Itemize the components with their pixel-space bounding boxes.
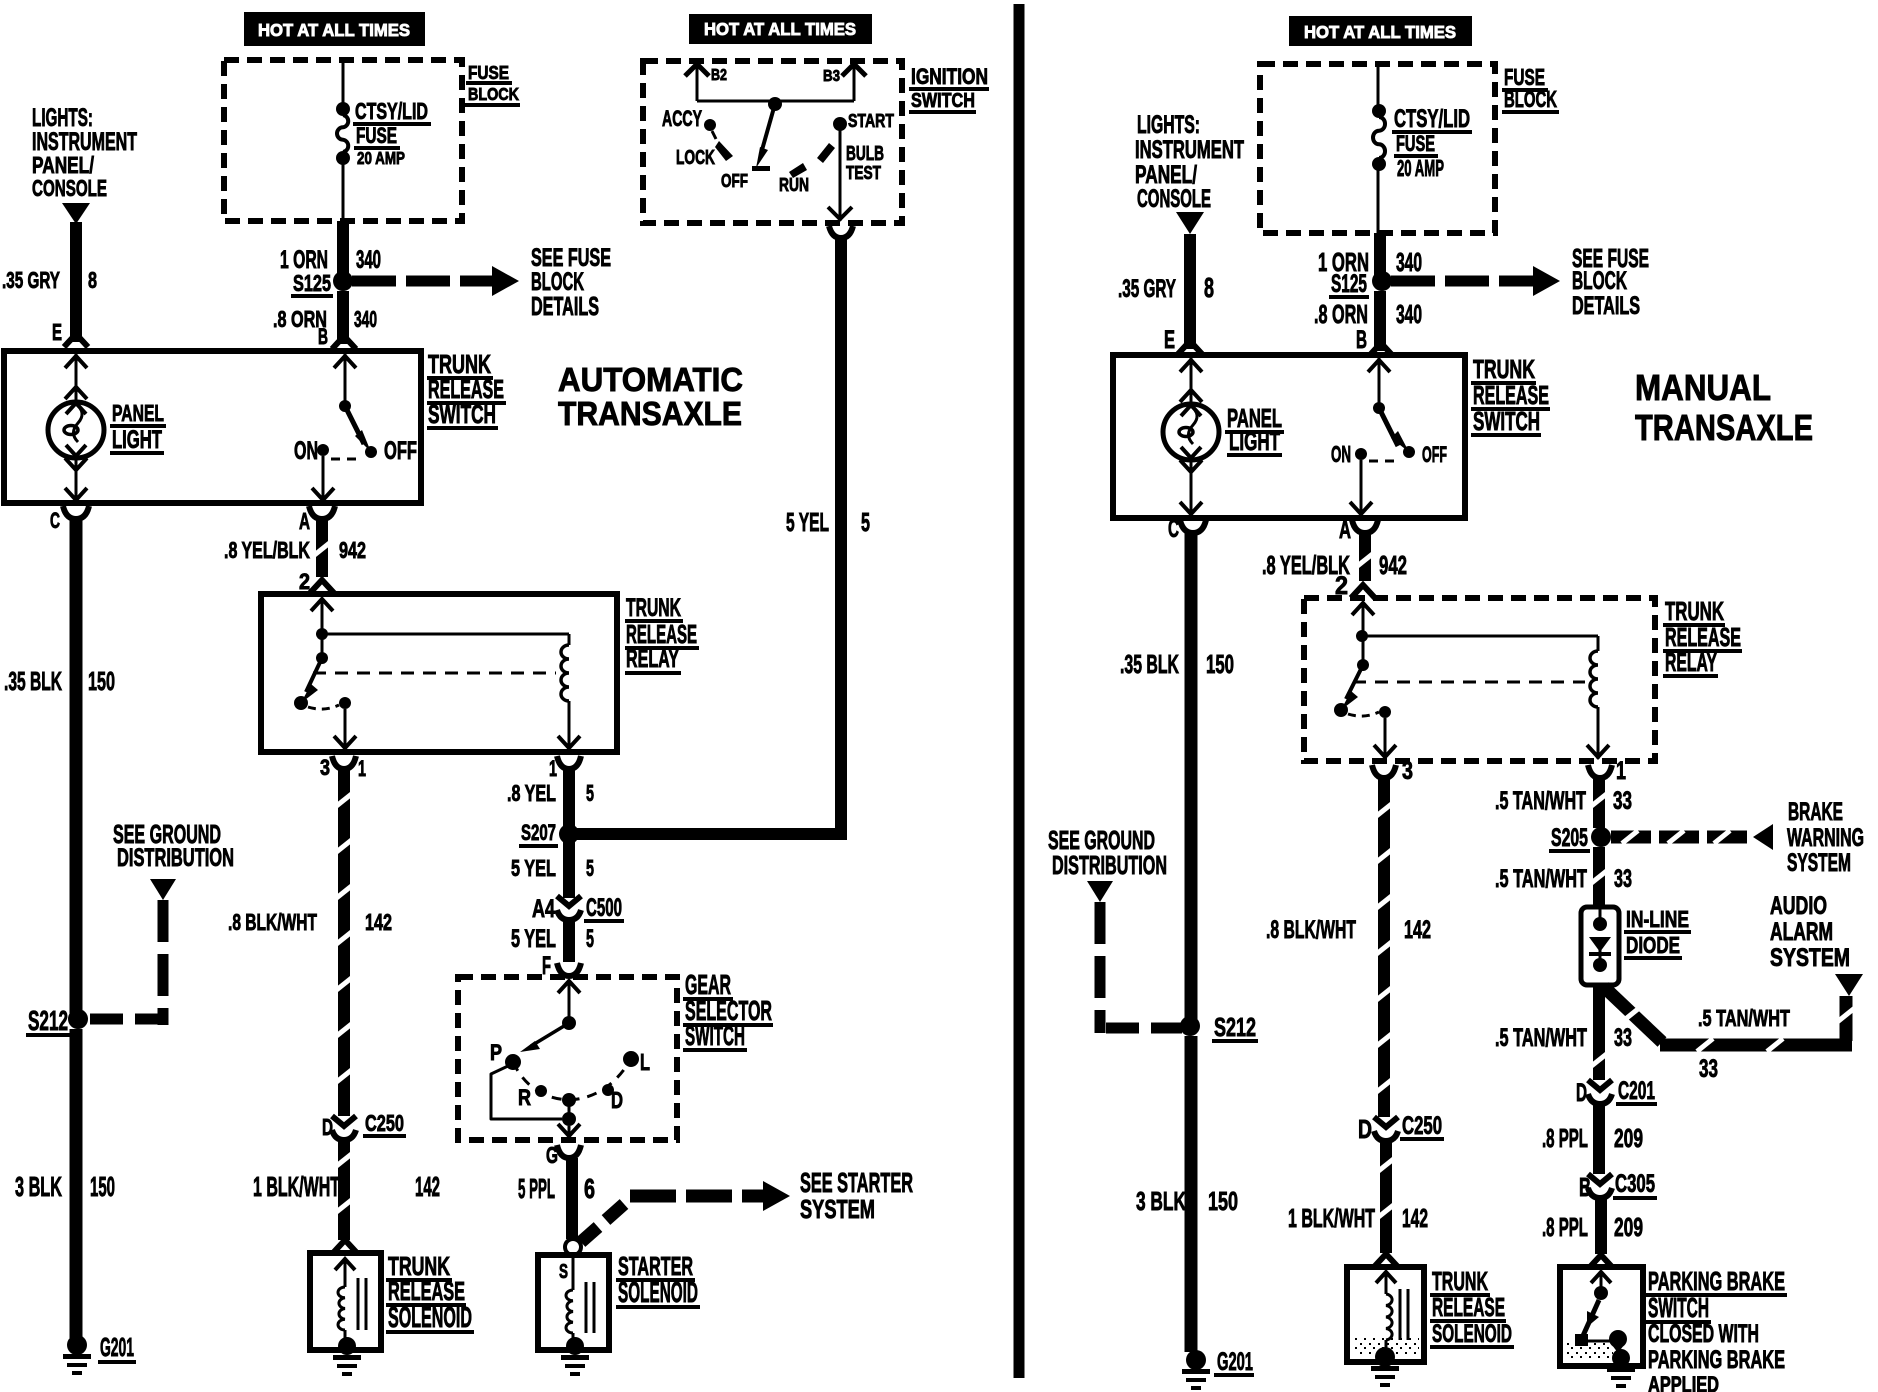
svg-text:BULB: BULB bbox=[846, 143, 884, 165]
starter solenoid S terminal (open junction) bbox=[565, 1239, 581, 1255]
wire: .8 PPL 209 (C305 to parking brake switch) bbox=[1595, 1198, 1607, 1254]
trunk release relay K1 box (right, dashed) bbox=[1304, 598, 1655, 761]
svg-text:APPLIED: APPLIED bbox=[1648, 1372, 1719, 1392]
label: STARTER SOLENOID bbox=[616, 1251, 700, 1309]
svg-text:.5 TAN/WHT: .5 TAN/WHT bbox=[1495, 1025, 1587, 1052]
switch blade (left, at OFF) bbox=[345, 406, 371, 452]
wire: .8 YEL 5 (relay pin 1 to S207) bbox=[563, 770, 575, 829]
svg-text:209: 209 bbox=[1614, 1123, 1643, 1153]
trunk release solenoid L1 box (left) bbox=[310, 1253, 381, 1350]
splice S212 (left) bbox=[68, 1009, 88, 1029]
label: SEE GROUND DISTRIBUTION (right) bbox=[1048, 825, 1167, 880]
svg-text:LIGHTS:: LIGHTS: bbox=[1137, 112, 1200, 139]
label: 142 (upper left) bbox=[365, 909, 392, 935]
wire: ON contact to pin A (right) bbox=[1350, 460, 1372, 516]
label: OFF (ignition) bbox=[721, 171, 748, 192]
pin 2 collar (right relay) bbox=[1351, 585, 1375, 598]
label: ACCY bbox=[662, 106, 702, 131]
relay pin 1 collar (right) bbox=[1588, 765, 1612, 778]
label: B (right) bbox=[1356, 327, 1367, 354]
label: 2 (relay pin, left) bbox=[299, 569, 310, 594]
pin G collar bbox=[557, 1145, 581, 1158]
label: S125 (right) bbox=[1329, 271, 1369, 299]
svg-text:RELEASE: RELEASE bbox=[1432, 1292, 1505, 1322]
label: 1 (relay pin 1, left) bbox=[549, 756, 557, 781]
svg-text:OFF: OFF bbox=[721, 171, 748, 192]
label: .5 TAN/WHT (third) bbox=[1495, 1025, 1587, 1052]
svg-text:20 AMP: 20 AMP bbox=[357, 148, 405, 168]
svg-text:SOLENOID: SOLENOID bbox=[388, 1302, 472, 1334]
wire: .8 YEL/BLK 942 (right) bbox=[1356, 530, 1374, 581]
label: TRUNK RELEASE SWITCH (right) bbox=[1471, 354, 1550, 437]
switch pivot node (right) bbox=[1373, 402, 1385, 414]
label: C500 bbox=[584, 895, 624, 923]
svg-text:.8 BLK/WHT: .8 BLK/WHT bbox=[1266, 917, 1356, 944]
svg-text:209: 209 bbox=[1614, 1212, 1643, 1242]
svg-text:SOLENOID: SOLENOID bbox=[1432, 1321, 1512, 1348]
svg-text:2: 2 bbox=[299, 569, 310, 594]
splice S125 (left) bbox=[333, 271, 353, 291]
label: TRUNK RELEASE SOLENOID (right) bbox=[1430, 1266, 1514, 1349]
label: 150 (upper) bbox=[88, 666, 115, 696]
svg-text:340: 340 bbox=[1396, 299, 1422, 329]
svg-text:OFF: OFF bbox=[384, 438, 417, 465]
svg-text:L: L bbox=[640, 1049, 650, 1075]
svg-text:F: F bbox=[542, 953, 551, 980]
ground G201 (right) bbox=[1182, 1350, 1210, 1390]
wire: .8 PPL 209 (C201 to C305) bbox=[1593, 1104, 1605, 1174]
label: .35 GRY (right) bbox=[1118, 276, 1176, 303]
svg-text:PANEL/: PANEL/ bbox=[1135, 162, 1197, 189]
svg-text:C: C bbox=[50, 508, 60, 533]
label: 33 (top) bbox=[1613, 788, 1632, 815]
svg-text:.35 BLK: .35 BLK bbox=[4, 666, 62, 696]
svg-text:33: 33 bbox=[1613, 788, 1632, 815]
label: 8 (right) bbox=[1204, 272, 1214, 303]
label: 3 (relay pin, right) bbox=[1402, 758, 1413, 785]
label: SEE GROUND DISTRIBUTION (left) bbox=[113, 819, 234, 872]
parking brake switch box bbox=[1560, 1267, 1643, 1366]
wire: panel light feed from pin E (right) bbox=[1180, 358, 1202, 406]
ground at trunk release solenoid (left) bbox=[333, 1337, 361, 1376]
svg-text:8: 8 bbox=[1204, 272, 1214, 303]
svg-text:S125: S125 bbox=[1331, 271, 1367, 298]
contact ON (left) bbox=[317, 444, 329, 456]
svg-text:SYSTEM: SYSTEM bbox=[800, 1194, 875, 1224]
wire: .35 BLK 150 (pin C to S212, right) bbox=[1185, 530, 1198, 1026]
wire: dashed reference from brake warning system bbox=[1611, 824, 1773, 850]
in-line diode CR1 bbox=[1589, 907, 1611, 972]
svg-text:5: 5 bbox=[586, 855, 594, 881]
svg-text:.35 GRY: .35 GRY bbox=[2, 267, 60, 293]
svg-text:RELEASE: RELEASE bbox=[626, 619, 697, 649]
label: BULB TEST bbox=[846, 143, 884, 184]
pin E collar (left) bbox=[64, 334, 88, 347]
label: ON (left) bbox=[294, 438, 318, 465]
label: .8 PPL (upper) bbox=[1542, 1123, 1588, 1153]
label: 150 (lower left) bbox=[90, 1171, 115, 1202]
label: 5 YEL (above C500) bbox=[511, 855, 556, 881]
label: 1 BLK/WHT (right) bbox=[1288, 1203, 1375, 1233]
label: A4 (C500 pin) bbox=[532, 896, 555, 923]
svg-text:SEE FUSE: SEE FUSE bbox=[531, 245, 611, 272]
svg-text:.5 TAN/WHT: .5 TAN/WHT bbox=[1495, 788, 1586, 815]
svg-text:D: D bbox=[1576, 1080, 1587, 1107]
label: 340 (upper right) bbox=[1396, 247, 1422, 277]
label: 142 (upper right) bbox=[1404, 917, 1431, 944]
page divider rule bbox=[1014, 4, 1025, 1378]
switch blade (right, at OFF) bbox=[1379, 408, 1409, 452]
wire: fuse to block edge (right) bbox=[1377, 170, 1380, 233]
wire: .5 TAN/WHT 33 (relay pin 1 to S205) bbox=[1590, 779, 1608, 828]
relay K1 internals (left) bbox=[294, 599, 580, 750]
svg-text:33: 33 bbox=[1699, 1056, 1718, 1083]
svg-text:S: S bbox=[559, 1261, 568, 1283]
contact ON (right) bbox=[1355, 448, 1367, 460]
panel light lamp DS1 (left) bbox=[48, 402, 104, 458]
label: .35 GRY bbox=[2, 267, 60, 293]
label: SEE FUSE BLOCK DETAILS (right) bbox=[1572, 243, 1649, 320]
label: C201 bbox=[1616, 1078, 1657, 1106]
label: 5 (above C500) bbox=[586, 855, 594, 881]
wire: 5 YEL 5 (C500 to gear selector pin F) bbox=[563, 920, 575, 962]
connector C250 (right) bbox=[1374, 1117, 1398, 1141]
wire: dashed reference to starter system bbox=[581, 1181, 790, 1242]
svg-text:3: 3 bbox=[1402, 758, 1413, 785]
power label: HOT AT ALL TIMES (ignition) bbox=[689, 14, 872, 44]
svg-text:B2: B2 bbox=[711, 67, 727, 84]
wire: .5 TAN/WHT 33 (S205 to diode) bbox=[1590, 847, 1608, 907]
svg-text:.5 TAN/WHT: .5 TAN/WHT bbox=[1495, 866, 1587, 893]
svg-text:P: P bbox=[490, 1040, 502, 1065]
label: GEAR SELECTOR SWITCH bbox=[683, 969, 773, 1052]
svg-text:.8 PPL: .8 PPL bbox=[1542, 1123, 1588, 1153]
trunk release relay K1 box (left) bbox=[261, 594, 617, 752]
label: RUN bbox=[779, 175, 809, 196]
svg-text:SWITCH: SWITCH bbox=[428, 399, 496, 429]
fuse block U1 (left, dashed outline) bbox=[224, 60, 462, 221]
svg-text:SWITCH: SWITCH bbox=[685, 1020, 745, 1051]
label: .8 BLK/WHT (right) bbox=[1266, 917, 1356, 944]
svg-text:SOLENOID: SOLENOID bbox=[618, 1277, 698, 1309]
svg-text:E: E bbox=[52, 319, 62, 345]
label: 150 (upper right main) bbox=[1206, 649, 1234, 679]
fuse F1 CTSY/LID FUSE 20 AMP (right) bbox=[1372, 104, 1386, 171]
svg-text:HOT AT ALL TIMES: HOT AT ALL TIMES bbox=[704, 19, 856, 39]
svg-text:LOCK: LOCK bbox=[676, 147, 715, 169]
label: FUSE BLOCK (left) bbox=[465, 63, 520, 107]
wire: switch feed from pin B (right) bbox=[1368, 358, 1390, 406]
ignition bus B2-B3 bbox=[697, 100, 854, 103]
wire: dashed ground distribution branch (right) bbox=[1095, 902, 1183, 1034]
label: 5 YEL (below C500) bbox=[511, 926, 556, 953]
pin A collar (right) bbox=[1352, 520, 1378, 533]
wire: panel light to pin C (right) bbox=[1180, 460, 1202, 516]
label: 340 (upper left) bbox=[356, 247, 381, 274]
svg-text:SWITCH: SWITCH bbox=[1648, 1292, 1709, 1323]
ground at parking brake switch bbox=[1607, 1349, 1635, 1388]
svg-text:C305: C305 bbox=[1615, 1171, 1655, 1198]
svg-text:1: 1 bbox=[1616, 758, 1626, 785]
svg-text:.35 BLK: .35 BLK bbox=[1120, 649, 1179, 679]
svg-text:S212: S212 bbox=[1214, 1012, 1256, 1042]
label: B (left) bbox=[318, 324, 328, 349]
svg-text:33: 33 bbox=[1614, 1025, 1632, 1052]
svg-text:1 BLK/WHT: 1 BLK/WHT bbox=[1288, 1203, 1375, 1233]
label: .8 ORN bbox=[273, 306, 327, 332]
svg-text:LIGHTS:: LIGHTS: bbox=[32, 105, 93, 132]
svg-text:5: 5 bbox=[861, 507, 870, 537]
svg-text:5 YEL: 5 YEL bbox=[511, 855, 556, 881]
trunk release solenoid L1 box (right) bbox=[1347, 1267, 1424, 1362]
svg-text:.8 PPL: .8 PPL bbox=[1542, 1212, 1588, 1242]
label: .8 BLK/WHT (left) bbox=[228, 909, 317, 935]
wire: .8 YEL/BLK 942 (left) bbox=[313, 516, 331, 577]
ignition output collar bbox=[829, 226, 853, 238]
wire: .8 ORN 340 (right) bbox=[1374, 291, 1386, 351]
svg-text:BLOCK: BLOCK bbox=[1572, 268, 1627, 295]
relay pin 3 collar (right) bbox=[1372, 765, 1396, 778]
svg-text:ACCY: ACCY bbox=[662, 106, 702, 131]
label: .35 BLK (right) bbox=[1120, 649, 1179, 679]
label: E (right) bbox=[1164, 327, 1175, 354]
svg-text:ALARM: ALARM bbox=[1770, 919, 1833, 946]
svg-text:MANUAL: MANUAL bbox=[1635, 367, 1771, 408]
svg-text:5 YEL: 5 YEL bbox=[511, 926, 556, 953]
svg-text:BLOCK: BLOCK bbox=[468, 84, 519, 104]
svg-text:5: 5 bbox=[586, 926, 594, 953]
label: .35 BLK bbox=[4, 666, 62, 696]
off-page connector triangle to instrument panel lights (right) bbox=[1176, 212, 1204, 234]
label: 8 bbox=[88, 267, 97, 293]
label: 5 (.8 YEL) bbox=[586, 780, 594, 806]
svg-text:CONSOLE: CONSOLE bbox=[32, 175, 107, 201]
svg-text:SYSTEM: SYSTEM bbox=[1787, 850, 1851, 877]
svg-text:S125: S125 bbox=[293, 270, 331, 296]
splice S125 (right) bbox=[1372, 271, 1392, 291]
label: .5 TAN/WHT (top) bbox=[1495, 788, 1586, 815]
power label: HOT AT ALL TIMES (left) bbox=[244, 12, 425, 46]
label: S125 (left) bbox=[291, 270, 333, 298]
svg-text:142: 142 bbox=[415, 1171, 440, 1202]
label: S212 (right) bbox=[1212, 1012, 1258, 1043]
svg-text:PARKING BRAKE: PARKING BRAKE bbox=[1648, 1347, 1785, 1374]
label: 6 bbox=[584, 1173, 595, 1204]
label: OFF (right) bbox=[1422, 442, 1447, 467]
label: P bbox=[490, 1040, 502, 1065]
svg-text:TRUNK: TRUNK bbox=[626, 595, 681, 622]
svg-text:S212: S212 bbox=[28, 1005, 68, 1036]
svg-text:20 AMP: 20 AMP bbox=[1397, 155, 1444, 181]
label: 1 BLK/WHT (left) bbox=[253, 1171, 340, 1202]
svg-text:TRANSAXLE: TRANSAXLE bbox=[558, 396, 742, 433]
label: 942 bbox=[339, 537, 366, 563]
trunk release solenoid collar (left) bbox=[333, 1240, 357, 1253]
svg-text:CTSY/LID: CTSY/LID bbox=[1394, 106, 1470, 133]
contact OFF (left) bbox=[365, 446, 377, 458]
label: 209 (lower) bbox=[1614, 1212, 1643, 1242]
svg-text:S205: S205 bbox=[1551, 825, 1588, 852]
label: ON (right) bbox=[1331, 441, 1351, 467]
trunk release switch box (left) bbox=[4, 351, 421, 503]
relay pin 3 collar (left) bbox=[332, 756, 356, 769]
stipple texture in solenoid box (right) bbox=[1353, 1338, 1419, 1356]
gear selector switch box (dashed) bbox=[458, 977, 677, 1140]
label: PANEL LIGHT (left) bbox=[110, 400, 166, 455]
label: 1 ORN (right) bbox=[1318, 247, 1369, 277]
label: 3 BLK (right) bbox=[1136, 1186, 1186, 1216]
label: BRAKE WARNING SYSTEM bbox=[1787, 799, 1864, 877]
svg-text:CLOSED WITH: CLOSED WITH bbox=[1648, 1321, 1759, 1348]
label: 942 (right) bbox=[1379, 550, 1407, 580]
label: S (starter terminal) bbox=[559, 1261, 568, 1283]
wire: battery feed into fuse (right) bbox=[1377, 64, 1380, 106]
wire: 5 PPL 6 (pin G to starter solenoid) bbox=[566, 1158, 578, 1239]
wire: .5 TAN/WHT 33 branch to audio alarm bbox=[1604, 987, 1854, 1052]
svg-text:RUN: RUN bbox=[779, 175, 809, 196]
off-page connector triangle to ground distribution (right) bbox=[1087, 881, 1113, 902]
svg-text:.8 ORN: .8 ORN bbox=[1314, 299, 1368, 329]
wire: .5 TAN/WHT 33 (diode to C201) bbox=[1590, 985, 1608, 1080]
svg-text:3: 3 bbox=[320, 755, 330, 780]
label: F (gear selector pin) bbox=[542, 953, 551, 980]
pin 2 collar (left relay) bbox=[310, 580, 334, 593]
svg-text:3 BLK: 3 BLK bbox=[1136, 1186, 1186, 1216]
label: IGNITION SWITCH bbox=[909, 64, 989, 114]
label: C (left) bbox=[50, 508, 60, 533]
svg-text:RELAY: RELAY bbox=[1665, 647, 1717, 677]
wire: 1 ORN 340 (left) bbox=[337, 221, 349, 281]
svg-text:IN-LINE: IN-LINE bbox=[1626, 906, 1689, 932]
label: C250 (right) bbox=[1400, 1113, 1444, 1141]
ground G201 (left) bbox=[63, 1335, 91, 1375]
label: L bbox=[640, 1049, 650, 1075]
svg-text:C: C bbox=[1168, 516, 1179, 543]
wire: 3 BLK 150 (S212 to G201, right) bbox=[1185, 1036, 1198, 1352]
svg-text:B: B bbox=[318, 324, 328, 349]
in-line diode CR1 box bbox=[1581, 907, 1619, 985]
label: 209 (upper) bbox=[1614, 1123, 1643, 1153]
label: .8 YEL/BLK (right) bbox=[1262, 550, 1350, 580]
pin C collar (left) bbox=[63, 506, 89, 519]
label: FUSE BLOCK (right) bbox=[1502, 64, 1559, 114]
svg-text:3 BLK: 3 BLK bbox=[15, 1171, 62, 1202]
label: 3 BLK (left) bbox=[15, 1171, 62, 1202]
off-page connector triangle to ground distribution (left) bbox=[150, 879, 176, 900]
svg-text:.35 GRY: .35 GRY bbox=[1118, 276, 1176, 303]
svg-text:FUSE: FUSE bbox=[1396, 131, 1435, 156]
wire: dashed reference to fuse block details (right) bbox=[1391, 266, 1560, 296]
contact RUN tick bbox=[789, 163, 807, 178]
off-page connector triangle to instrument panel lights (left) bbox=[62, 203, 90, 224]
wire: 1 ORN 340 (right) bbox=[1374, 233, 1386, 281]
dashed throw between ON and OFF (right) bbox=[1369, 460, 1399, 463]
svg-text:942: 942 bbox=[339, 537, 366, 563]
starter solenoid box bbox=[538, 1255, 609, 1350]
label: START bbox=[848, 111, 894, 132]
svg-text:150: 150 bbox=[90, 1171, 115, 1202]
label: C250 (left) bbox=[363, 1110, 406, 1138]
svg-text:E: E bbox=[1164, 327, 1175, 354]
label: .8 YEL/BLK bbox=[224, 537, 310, 563]
wire: 5 YEL 5 (S207 to C500) bbox=[563, 840, 575, 898]
trunk release solenoid L1 coil (left) bbox=[335, 1259, 368, 1341]
pin A collar (left) bbox=[309, 506, 335, 519]
svg-text:340: 340 bbox=[354, 306, 377, 332]
pin C collar (right) bbox=[1180, 520, 1206, 533]
svg-text:142: 142 bbox=[1402, 1203, 1428, 1233]
svg-text:RELAY: RELAY bbox=[626, 646, 679, 673]
svg-text:A4: A4 bbox=[532, 896, 555, 923]
fuse block U1 (right, dashed outline) bbox=[1260, 64, 1495, 233]
label: 142 (lower left) bbox=[415, 1171, 440, 1202]
svg-text:C500: C500 bbox=[586, 895, 622, 922]
label: 2 (relay pin, right) bbox=[1335, 573, 1348, 600]
label: 1 (relay pin, right) bbox=[1616, 758, 1626, 785]
wire: battery feed into fuse (left) bbox=[342, 60, 345, 104]
wire: .35 GRY 8 (left) bbox=[70, 222, 82, 342]
splice S205 bbox=[1591, 827, 1611, 847]
svg-text:BLOCK: BLOCK bbox=[1504, 86, 1557, 112]
label: B3 bbox=[823, 68, 840, 85]
pin B collar (left) bbox=[332, 336, 356, 349]
label: LIGHTS: INSTRUMENT PANEL/CONSOLE (right) bbox=[1135, 112, 1244, 213]
svg-text:5 PPL: 5 PPL bbox=[518, 1173, 555, 1204]
svg-text:FUSE: FUSE bbox=[468, 63, 509, 84]
svg-text:CONSOLE: CONSOLE bbox=[1137, 186, 1211, 213]
svg-text:D: D bbox=[1358, 1114, 1372, 1144]
label: E bbox=[52, 319, 62, 345]
svg-text:8: 8 bbox=[88, 267, 97, 293]
label: LIGHTS: INSTRUMENT PANEL/CONSOLE (left) bbox=[32, 105, 137, 201]
label: A (right) bbox=[1339, 517, 1351, 544]
label: TRUNK RELEASE SOLENOID (left) bbox=[386, 1251, 474, 1334]
power label: HOT AT ALL TIMES (right) bbox=[1289, 16, 1472, 46]
pin B collar (right) bbox=[1369, 343, 1393, 356]
relay K1 internals (right) bbox=[1334, 603, 1609, 759]
svg-text:ON: ON bbox=[294, 438, 318, 465]
svg-text:IGNITION: IGNITION bbox=[911, 64, 988, 89]
svg-text:150: 150 bbox=[1208, 1186, 1238, 1216]
label: 5 (below C500) bbox=[586, 926, 594, 953]
label: 1 ORN bbox=[280, 247, 328, 274]
label: 33 (third) bbox=[1614, 1025, 1632, 1052]
svg-text:150: 150 bbox=[88, 666, 115, 696]
connector C305 bbox=[1588, 1174, 1612, 1198]
connector C500 bbox=[557, 896, 581, 920]
contact BULB TEST tick bbox=[817, 143, 835, 163]
svg-text:DETAILS: DETAILS bbox=[1572, 293, 1640, 320]
svg-text:START: START bbox=[848, 111, 894, 132]
contact START bbox=[833, 117, 847, 131]
label: S205 bbox=[1549, 825, 1590, 853]
svg-text:.8 BLK/WHT: .8 BLK/WHT bbox=[228, 909, 317, 935]
svg-text:340: 340 bbox=[356, 247, 381, 274]
starter solenoid coil bbox=[566, 1255, 596, 1341]
label: MANUAL TRANSAXLE bbox=[1635, 367, 1813, 448]
svg-text:SWITCH: SWITCH bbox=[1473, 406, 1540, 436]
label: D (C250 pin, left) bbox=[322, 1114, 333, 1140]
parking brake switch internals bbox=[1575, 1272, 1627, 1353]
svg-text:G201: G201 bbox=[100, 1332, 134, 1362]
label: G201 (left) bbox=[98, 1332, 136, 1364]
label: B (C305 pin) bbox=[1579, 1172, 1591, 1202]
svg-text:AUTOMATIC: AUTOMATIC bbox=[558, 362, 743, 399]
dashed throw between ON and OFF (left) bbox=[331, 458, 361, 461]
label: .8 ORN (right) bbox=[1314, 299, 1368, 329]
trunk release switch box (right) bbox=[1113, 355, 1465, 518]
svg-text:AUDIO: AUDIO bbox=[1770, 893, 1827, 920]
